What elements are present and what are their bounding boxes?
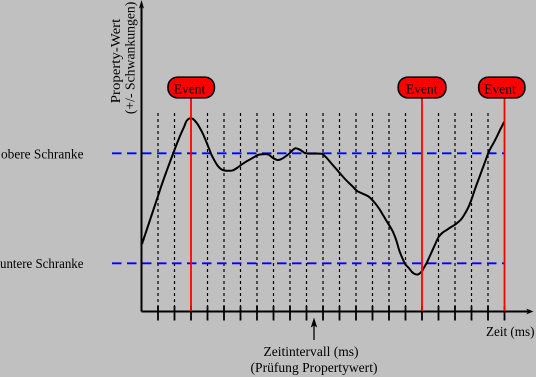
property value curve: [142, 118, 504, 274]
upper threshold blue dashed line (obere Schranke): [112, 152, 504, 154]
svg-text:(Prüfung Propertywert): (Prüfung Propertywert): [251, 360, 378, 375]
svg-text:Event: Event: [174, 82, 206, 97]
event 3 red line: [504, 98, 506, 311]
svg-text:obere Schranke: obere Schranke: [1, 147, 84, 162]
interval pointer arrow: [313, 324, 315, 340]
svg-text:Event: Event: [484, 82, 516, 97]
svg-text:Event: Event: [406, 82, 438, 97]
svg-text:untere Schranke: untere Schranke: [0, 256, 84, 271]
lower threshold blue dashed line (untere Schranke): [112, 262, 504, 264]
svg-text:Property-Wert: Property-Wert: [108, 18, 123, 103]
event 2 red line: [421, 98, 423, 311]
dashed vertical gridlines (time interval grid): [158, 113, 488, 312]
x axis tick marks: [158, 306, 505, 321]
event 1 red line: [190, 98, 192, 311]
svg-text:(+/- Schwankungen): (+/- Schwankungen): [123, 2, 138, 115]
svg-text:Zeit (ms): Zeit (ms): [486, 324, 535, 339]
y axis (Property-Wert): [141, 3, 143, 312]
x axis (Zeit): [142, 311, 532, 313]
interval pointer arrowhead: [311, 318, 317, 328]
event 1 box: [168, 77, 214, 98]
event 3 box: [479, 77, 525, 98]
event 2 box: [398, 77, 446, 98]
y axis arrowhead: [139, 0, 144, 9]
svg-text:Zeitintervall (ms): Zeitintervall (ms): [264, 344, 359, 359]
x axis arrowhead: [526, 309, 533, 315]
